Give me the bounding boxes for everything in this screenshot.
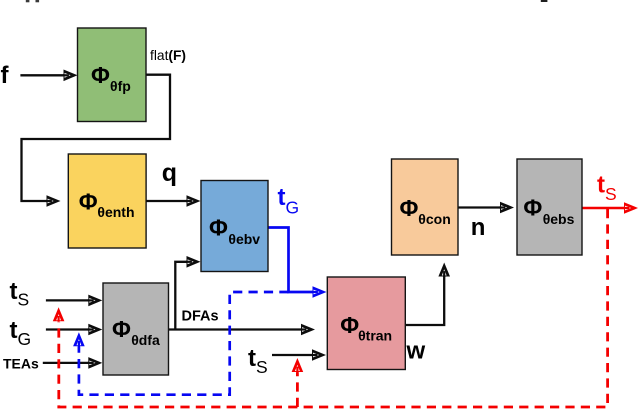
wire tG blue output solid (268, 228, 319, 293)
cropped caption mark 2 (36, 0, 40, 2)
svg-text:Φ: Φ (340, 312, 359, 338)
svg-text:q: q (162, 159, 177, 187)
wire n con to ebs (458, 206, 506, 208)
svg-text:Φ: Φ (523, 195, 542, 221)
wire DFAs branch up to ebv (175, 262, 193, 330)
svg-text:n: n (471, 214, 486, 241)
arrowhead DFAs into tran (301, 324, 316, 336)
arrowhead blue feedback up to tG line (73, 332, 85, 347)
arrowhead tG into dfa (88, 324, 103, 336)
wire f input (20, 74, 70, 76)
arrowhead tS into tran (312, 349, 327, 361)
svg-text:θebv: θebv (228, 231, 260, 247)
svg-text:Φ: Φ (112, 316, 131, 342)
svg-text:θdfa: θdfa (131, 332, 160, 348)
arrowhead w into con (438, 263, 450, 278)
wire flat(F) feedback loop (22, 75, 171, 201)
cropped caption mark 3 (541, 0, 548, 2)
arrowhead TEAs into dfa (88, 357, 103, 369)
svg-text:θenth: θenth (97, 204, 134, 220)
block U7 phi_theta_ebs (517, 159, 582, 255)
arrowhead tS red output (624, 202, 639, 214)
svg-text:Φ: Φ (400, 195, 419, 221)
svg-text:θtran: θtran (358, 328, 392, 344)
block U3 phi_theta_ebv (201, 181, 268, 272)
svg-text:w: w (406, 338, 426, 365)
wire red dashed branch up to tran tS (296, 372, 299, 407)
wire blue dashed feedback left-bottom (79, 292, 289, 395)
wire tG input to dfa (46, 328, 95, 330)
arrowhead tS into dfa (88, 295, 103, 307)
svg-text:Φ: Φ (91, 62, 110, 88)
arrowhead red branch up to tran tS line (292, 358, 304, 373)
arrowhead f into fp (63, 70, 78, 82)
block U5 phi_theta_tran (327, 277, 405, 370)
svg-text:Φ: Φ (79, 189, 98, 215)
wire DFAs output dfa to tran (169, 328, 308, 330)
wire tS input to dfa (46, 299, 95, 301)
block U1 phi_theta_fp (78, 28, 147, 122)
svg-text:TEAs: TEAs (3, 356, 39, 372)
wire red dashed feedback right-bottom-left (59, 209, 608, 407)
svg-text:θfp: θfp (110, 78, 131, 94)
wire tS input to tran (272, 354, 318, 356)
cropped caption mark 1 (26, 0, 30, 2)
block U4 phi_theta_dfa (103, 283, 169, 375)
arrowhead q into ebv (186, 195, 201, 207)
wire tS red output solid (582, 207, 630, 210)
arrowhead n into ebs (500, 202, 515, 214)
arrowhead red feedback up to tS line (53, 307, 65, 322)
wire TEAs input to dfa (43, 362, 95, 364)
svg-text:Φ: Φ (209, 215, 228, 241)
svg-text:flat(F): flat(F) (150, 48, 186, 63)
block U2 phi_theta_enth (68, 154, 146, 248)
wire q enth to ebv (146, 200, 193, 202)
arrowhead feedback into enth (46, 195, 61, 207)
svg-text:f: f (1, 62, 10, 89)
svg-text:θcon: θcon (418, 211, 450, 227)
block U6 phi_theta_con (392, 159, 459, 255)
arrowhead blue into tran (312, 286, 327, 298)
arrowhead branch into ebv (186, 256, 201, 268)
svg-text:θebs: θebs (543, 211, 575, 227)
svg-text:DFAs: DFAs (182, 309, 219, 325)
wire w tran to con (405, 271, 444, 326)
